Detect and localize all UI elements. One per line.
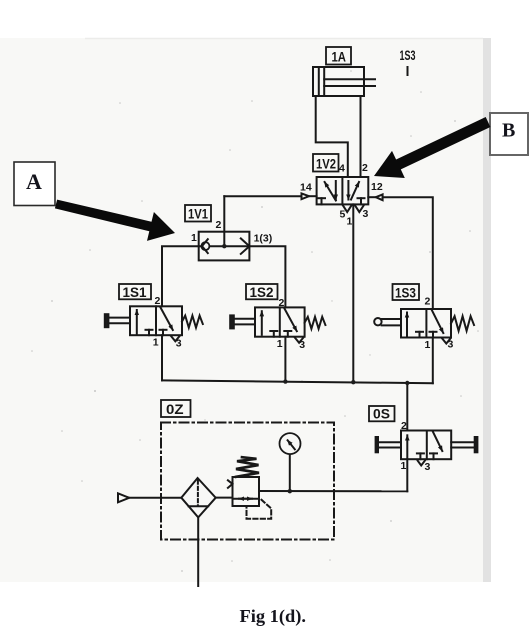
label box 1S2 (246, 284, 278, 299)
valve 1S2 body (255, 307, 305, 336)
valve 1S2 blocked T left (270, 330, 277, 332)
svg-text:1S3: 1S3 (395, 285, 416, 301)
svg-text:1: 1 (153, 337, 159, 349)
valve 1S3 diagonal exhaust arrow (432, 311, 443, 334)
regulator relief vent (228, 480, 233, 488)
wire bus down to valve 0S port 2 (406, 383, 408, 431)
valve 1S2 diagonal exhaust arrow (285, 309, 297, 332)
valve 1S1 flow arrow up (136, 310, 138, 334)
junction dots (222, 244, 226, 248)
valve 1S2 exhaust v port 3 (295, 338, 304, 343)
air source triangle (118, 493, 129, 502)
wire 1S3 port 1 to bus (432, 338, 434, 384)
svg-text:5: 5 (340, 209, 346, 221)
valve 1V2 right square flow arrows (347, 181, 349, 200)
wire 1V1 port 1 to 1S1 port 2 (162, 246, 199, 306)
valve 1S2 spring (305, 317, 326, 329)
valve 1S3 blocked T right (430, 331, 437, 333)
shuttle valve 1V1 ball (201, 242, 209, 250)
svg-text:1: 1 (347, 216, 353, 228)
svg-text:2: 2 (216, 219, 222, 231)
supply bus line (162, 380, 433, 383)
svg-text:3: 3 (176, 338, 182, 350)
wire source to filter (129, 497, 181, 499)
shuttle valve 1V1 body (199, 232, 250, 261)
regulator flow line with arrows (239, 498, 252, 500)
valve 1S2 blocked T right (284, 330, 291, 332)
cylinder 1A rod (324, 78, 375, 80)
wire pilot 12 to 1S3 port 2 (383, 197, 433, 309)
scan right edge gray strip (483, 38, 491, 582)
valve 1S1 exhaust v port 3 (171, 336, 180, 341)
wire 1V1 port 1(3) to 1S2 port 2 (249, 246, 285, 307)
label box 1S1 (119, 284, 151, 299)
svg-text:3: 3 (425, 461, 431, 473)
valve 1V2 left square blocked port T (318, 197, 325, 199)
pilot line 14 (224, 195, 301, 197)
valve 1S1 blocked T left (146, 329, 153, 331)
cylinder 1A body (313, 67, 364, 96)
regulator spring (236, 457, 259, 477)
wire 1S2 port 1 to bus (284, 337, 286, 382)
valve 0S left push-pull actuator (376, 437, 378, 452)
svg-text:1: 1 (191, 232, 197, 244)
svg-text:1V1: 1V1 (188, 206, 208, 222)
pilot line 12 (368, 196, 376, 198)
valve 1S3 body (401, 309, 451, 338)
svg-text:1A: 1A (332, 49, 347, 65)
svg-text:2: 2 (279, 297, 285, 309)
valve 1V2 exhaust 5 (343, 206, 351, 213)
svg-text:0S: 0S (373, 406, 390, 422)
svg-text:1: 1 (277, 338, 283, 350)
wire filter to regulator (216, 497, 233, 499)
valve 1S3 pin actuator (374, 318, 381, 325)
label box 0S (369, 406, 395, 421)
scan background area (0, 38, 483, 582)
valve 0S flow arrow up (406, 435, 408, 457)
label box 1A (326, 47, 351, 65)
svg-text:12: 12 (371, 181, 383, 193)
valve 1S1 blocked T right (160, 329, 167, 331)
valve 0S exhaust v port 3 (418, 461, 425, 466)
valve 1S1 pushbutton (105, 314, 109, 327)
cylinder 1A piston (318, 67, 320, 96)
svg-text:0Z: 0Z (166, 401, 184, 417)
valve 1V2 exhaust 3 (355, 206, 364, 213)
valve 1S3 flow arrow up (406, 313, 408, 336)
svg-text:14: 14 (300, 182, 312, 194)
1S3 position marker tick (407, 67, 409, 75)
valve 1V2 body (317, 177, 369, 204)
valve 1S3 spring (451, 316, 474, 331)
svg-text:4: 4 (339, 163, 345, 175)
regulator body (233, 477, 260, 506)
wire 1S1 port 1 to bus (161, 335, 163, 380)
filter drain line (197, 517, 199, 586)
0Z enclosure dash-dot box (161, 423, 334, 540)
valve 1S3 blocked T left (416, 331, 423, 333)
wire 1V2 port 1 down to bus (352, 204, 354, 382)
label box 1V2 (313, 154, 339, 172)
pressure gauge (280, 433, 301, 454)
svg-text:B: B (502, 120, 515, 142)
svg-text:2: 2 (425, 296, 431, 308)
svg-text:2: 2 (155, 295, 161, 307)
wire cylinder left port to valve 1V2 port 4 (316, 96, 348, 177)
wire 1V1 port 2 up to pilot 14 (223, 196, 225, 246)
svg-text:1: 1 (401, 460, 407, 472)
valve 1S3 exhaust v port 3 (442, 338, 451, 343)
pilot triangle 12 (376, 194, 383, 200)
pressure gauge stem (289, 454, 291, 491)
svg-text:1(3): 1(3) (254, 233, 273, 245)
label box 0Z (161, 400, 191, 417)
valve 1V2 right square blocked port T (358, 197, 365, 199)
valve 0S diagonal arrow (433, 432, 442, 451)
svg-text:1S1: 1S1 (123, 284, 147, 300)
pilot triangle 14 (302, 193, 310, 199)
shuttle valve 1V1 left seat (202, 239, 208, 253)
callout box B (490, 113, 528, 155)
svg-text:2: 2 (401, 420, 407, 432)
valve 1V2 left square flow arrows (325, 182, 336, 201)
valve 1S2 pushbutton (230, 315, 234, 328)
svg-text:2: 2 (362, 162, 368, 174)
shuttle valve 1V1 centerline (199, 245, 250, 247)
svg-text:1S3: 1S3 (400, 47, 416, 63)
filter 0Z diamond (181, 478, 215, 517)
svg-text:1S2: 1S2 (250, 284, 274, 300)
valve 0S body (401, 431, 451, 460)
regulator pilot dashed line (247, 500, 272, 519)
valve 0S blocked T left (417, 452, 424, 454)
callout arrow B (374, 117, 490, 178)
callout arrow A (55, 200, 175, 241)
shuttle valve 1V1 right seat (241, 238, 250, 254)
callout box A (14, 162, 55, 206)
regulated supply line (259, 490, 407, 492)
svg-text:3: 3 (299, 339, 305, 351)
svg-text:3: 3 (448, 339, 454, 351)
valve 0S blocked T right (430, 452, 437, 454)
valve 1S1 body (130, 306, 182, 335)
valve 1S1 spring (182, 316, 203, 328)
valve 0S right push-pull actuator (451, 441, 474, 443)
valve 1S2 flow arrow up (261, 311, 263, 335)
svg-text:1: 1 (425, 339, 431, 351)
svg-text:1V2: 1V2 (316, 156, 336, 172)
label box 1S3 (393, 284, 420, 300)
svg-text:A: A (26, 169, 42, 194)
valve 1S1 diagonal exhaust arrow (161, 308, 173, 331)
wire cylinder right port to valve 1V2 port 2 (360, 96, 362, 177)
svg-text:3: 3 (363, 208, 369, 220)
wire 0S port 1 down to supply line (406, 459, 408, 491)
label box 1V1 (185, 205, 211, 222)
svg-text:Fig 1(d).: Fig 1(d). (240, 606, 307, 626)
